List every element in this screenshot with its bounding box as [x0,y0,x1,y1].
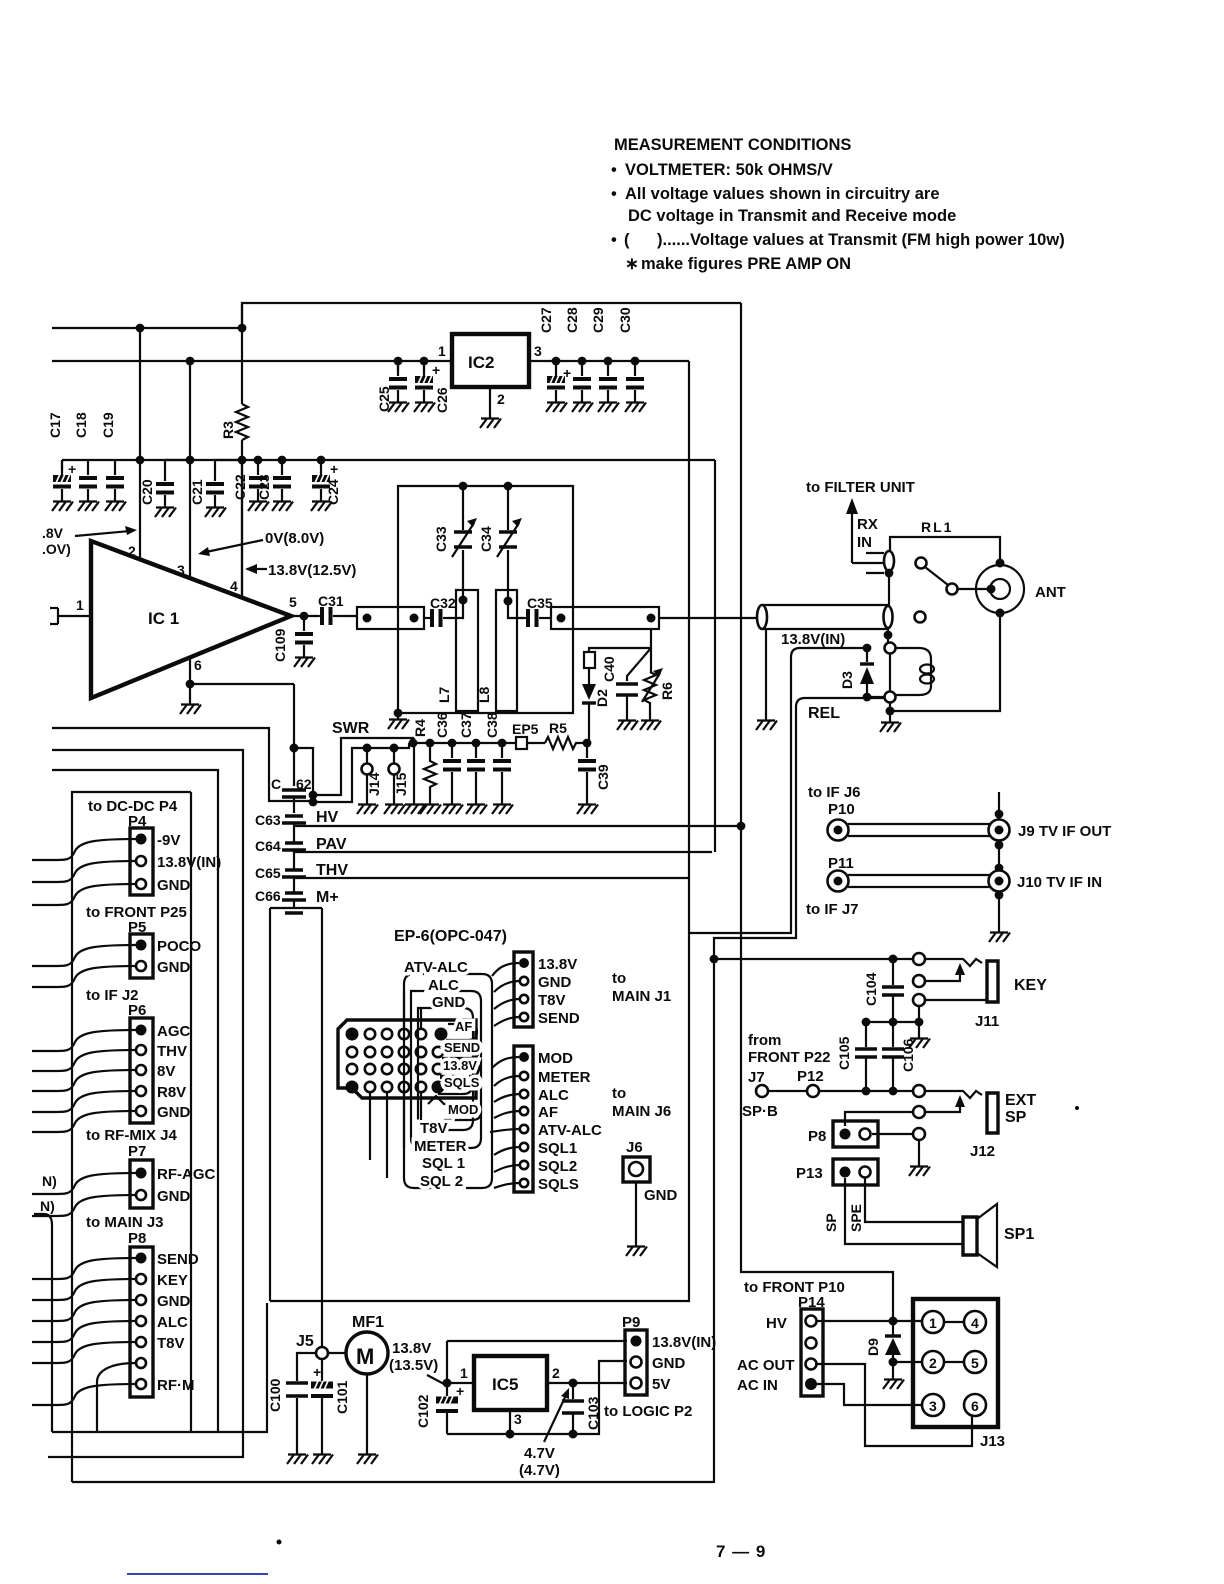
svg-text:to FRONT P10: to FRONT P10 [744,1279,845,1296]
svg-text:RX: RX [857,516,878,533]
svg-text:8V: 8V [157,1063,175,1080]
svg-text:M+: M+ [316,889,339,906]
svg-text:+: + [432,362,440,378]
svg-text:D9: D9 [865,1338,881,1356]
capacitor C22 [249,460,267,497]
connector to MAIN J1 [514,952,533,1027]
speaker SP1 [963,1217,977,1255]
wire SP to speaker [845,1178,963,1244]
resistor R3 [241,303,243,599]
svg-text:SQL 1: SQL 1 [422,1155,465,1172]
svg-text:SQLS: SQLS [444,1075,480,1090]
svg-text:ALC: ALC [157,1314,188,1331]
svg-text:C104: C104 [863,972,879,1006]
svg-text:C23: C23 [256,474,272,500]
svg-text:C22: C22 [232,474,248,500]
svg-text:to RF-MIX J4: to RF-MIX J4 [86,1127,177,1144]
wire left long 3 [52,770,218,1432]
svg-text:J13: J13 [980,1433,1005,1450]
IC5 ground rail [447,1361,627,1434]
svg-text:C100: C100 [267,1378,283,1412]
svg-text:C30: C30 [617,307,633,333]
svg-text:R4: R4 [412,719,428,737]
wire PAV line [294,851,712,853]
svg-text:3: 3 [929,1398,937,1414]
svg-text:C18: C18 [73,412,89,438]
J13 contact 1 [922,1311,944,1333]
capacitor C18 [79,460,97,497]
stray mark [1075,1106,1079,1110]
J13 contact 6 [964,1394,986,1416]
relay RL1 top contact [884,551,894,571]
wire pin2 vertical [139,328,141,560]
wire arrow base to contact [852,562,883,564]
capacitor C24 [312,460,330,497]
wire left vertical to line A [34,1214,52,1432]
capacitor C17 [53,460,71,497]
node rail460 x242 [238,456,247,465]
capacitor C21 [215,460,242,466]
jumper EP (small box above D2) [584,652,595,668]
diode D2 [582,684,596,700]
capacitor C40 [627,648,651,681]
J13 contact 4 [964,1311,986,1333]
svg-text:T8V: T8V [157,1335,185,1352]
svg-text:(13.5V): (13.5V) [389,1357,438,1374]
pin 4 vertical wire [241,460,243,598]
capacitor C25 [394,357,403,366]
svg-text:L8: L8 [476,686,492,703]
svg-text:C20: C20 [139,479,155,505]
svg-text:SQL1: SQL1 [538,1140,577,1157]
svg-text:to: to [612,970,626,987]
svg-text:GND: GND [538,974,572,991]
routing loop GND [418,1008,473,1130]
trimmer capacitor C33 [462,486,464,600]
svg-text:2: 2 [128,543,136,559]
svg-text:3: 3 [177,562,185,578]
svg-text:13.8V(12.5V): 13.8V(12.5V) [268,562,356,579]
svg-text:R5: R5 [549,720,567,736]
antenna jack ANT [976,565,1024,613]
svg-text:RF·M: RF·M [157,1377,195,1394]
bypass rail y460 [62,459,715,461]
wire bottom border C [72,1481,714,1483]
wire AC IN [817,1384,927,1405]
svg-text:•: • [611,231,617,249]
wire relay pole down [887,628,889,642]
capacitor C103 [572,1383,574,1399]
relay coil terminal bottom [885,692,896,703]
svg-text:HV: HV [316,809,339,826]
microstrip line 2 [551,607,659,629]
node rail1 end [238,324,247,333]
coaxial line to relay [762,605,888,629]
op-amp IC2 regulator box [452,334,529,387]
svg-text:1: 1 [435,1083,440,1093]
capacitor C102 [436,1397,458,1404]
svg-text:+: + [563,365,571,381]
capacitor C39 [578,743,596,780]
node line below C104 [866,1021,919,1023]
wire J10 ground [998,892,1000,928]
svg-text:METER: METER [538,1069,591,1086]
microstrip line 1 [357,607,424,629]
perfboard marked pads [346,1028,358,1040]
wire pin6 to C62 [293,684,295,786]
svg-text:R6: R6 [659,682,675,700]
svg-text:SQL2: SQL2 [538,1158,577,1175]
svg-text:J15: J15 [393,772,409,796]
svg-text:1: 1 [438,343,446,359]
svg-text:THV: THV [316,862,348,879]
svg-text:J12: J12 [970,1143,995,1160]
svg-text:KEY: KEY [157,1272,188,1289]
ground at resonator box corner [388,715,409,729]
jack J15 [393,748,395,764]
svg-text:C21: C21 [189,479,205,505]
node L8 top [504,597,513,606]
svg-text:ALC: ALC [428,977,459,994]
svg-text:GND: GND [157,877,191,894]
perfboard riser wires [404,991,421,1029]
svg-text:+: + [456,1383,464,1399]
capacitor C36 [448,739,457,748]
svg-text:GND: GND [644,1187,678,1204]
svg-text:AF: AF [455,1019,472,1034]
svg-text:T8V: T8V [420,1120,448,1137]
capacitor C101 [321,1359,323,1381]
wire P8 spare pin drop [97,1363,136,1432]
wire PAV vertical [714,460,716,852]
svg-text:C64: C64 [255,838,281,854]
node on rail1 at pin2 line [136,324,145,333]
svg-text:MAIN J1: MAIN J1 [612,988,671,1005]
relay coil terminal top [885,643,896,654]
svg-text:C19: C19 [100,412,116,438]
svg-text:GND: GND [157,959,191,976]
wire AC OUT [817,1364,972,1446]
svg-text:C66: C66 [255,888,281,904]
svg-text:C65: C65 [255,865,281,881]
svg-text:2: 2 [497,391,505,407]
svg-text:5: 5 [289,594,297,610]
capacitor C31 [314,607,338,625]
wire D9 node to J13 pin2 [893,1361,927,1363]
svg-text:SPE: SPE [848,1204,864,1232]
svg-text:C63: C63 [255,812,281,828]
wire bottom left A [52,1303,267,1432]
svg-text:J14: J14 [366,772,382,796]
svg-text:C40: C40 [601,656,617,682]
capacitor C106 [892,1022,894,1047]
wire SPE to speaker [865,1178,963,1222]
svg-text:13.8V(IN): 13.8V(IN) [652,1334,716,1351]
svg-text:ALC: ALC [538,1087,569,1104]
svg-text:HV: HV [766,1315,787,1332]
svg-text:C26: C26 [434,387,450,413]
svg-text:-9V: -9V [157,832,180,849]
svg-text:2: 2 [349,1030,354,1040]
wire relay common to ground [889,703,891,718]
ground stub right of J15 [413,738,415,800]
capacitor C26 [420,357,429,366]
svg-text:GND: GND [432,994,466,1011]
svg-text:MAIN J6: MAIN J6 [612,1103,671,1120]
svg-text:THV: THV [157,1043,187,1060]
svg-text:ATV-ALC: ATV-ALC [538,1122,602,1139]
svg-text:MEASUREMENT CONDITIONS: MEASUREMENT CONDITIONS [614,136,851,154]
svg-text:IC 1: IC 1 [148,609,179,628]
capacitor C37 [472,739,481,748]
wire tap from microstrip2 to detector [589,629,651,652]
wire left long 1 [52,728,313,801]
svg-text:C34: C34 [478,526,494,552]
svg-text:N): N) [42,1173,57,1189]
feedthrough capacitor C62 [282,790,306,797]
wires P8 pins [32,1258,136,1405]
stray dot bottom left [277,1540,282,1545]
svg-text:PAV: PAV [316,836,347,853]
svg-text:5V: 5V [652,1376,670,1393]
jack J11 sleeve contact [913,994,925,1006]
wire J9 to J10 [998,841,1000,870]
svg-text:METER: METER [414,1138,467,1155]
svg-text:to MAIN J3: to MAIN J3 [86,1214,164,1231]
svg-text:T8V: T8V [538,992,566,1009]
wire IC5 output pin2 [547,1382,627,1384]
wire THV vertical [688,361,690,933]
svg-text:C32: C32 [430,595,456,611]
svg-text:make figures PRE AMP ON: make figures PRE AMP ON [641,255,851,273]
capacitor C23 [273,460,291,497]
pin 2 wire and ground [489,387,491,414]
svg-text:C101: C101 [334,1380,350,1414]
jack J12 body [987,1093,998,1133]
svg-text:P11: P11 [828,855,854,872]
svg-text:EP-6(OPC-047): EP-6(OPC-047) [394,928,507,945]
wire KEY top [714,958,914,960]
svg-text:SQLS: SQLS [538,1176,579,1193]
wire C62 node to brackets [294,748,313,795]
wires J1 pins [492,963,520,1026]
relay coil REL [896,648,931,695]
svg-text:C38: C38 [484,712,500,738]
svg-text:AGC: AGC [157,1023,191,1040]
svg-text:to IF J6: to IF J6 [808,784,861,801]
svg-text:C102: C102 [415,1394,431,1428]
svg-text:13.8V: 13.8V [392,1340,431,1357]
relay RL1 lower contact [884,606,893,628]
pin 6 wire and ground [190,657,294,700]
node rail460 x190 [186,456,195,465]
J13 contact 5 [964,1351,986,1373]
wire microstrip2 to coax [659,617,757,619]
svg-text:J10 TV IF IN: J10 TV IF IN [1017,874,1102,891]
jack J11 tip contact [913,953,925,965]
svg-text:13.8V: 13.8V [443,1058,477,1073]
svg-text:1: 1 [929,1315,937,1331]
capacitor C105 [865,1022,867,1047]
jack J12 sleeve contact [913,1128,925,1140]
svg-text:.OV): .OV) [42,541,71,557]
relay RL1 moving contact [916,558,927,569]
wire coax shield ground [765,629,767,716]
svg-text:SP: SP [823,1213,839,1232]
svg-text:4: 4 [438,1030,443,1040]
svg-text:+: + [313,1364,321,1380]
svg-text:+: + [68,461,76,477]
node rail460 x140 [136,456,145,465]
svg-text:13.8V(IN): 13.8V(IN) [781,631,845,648]
svg-text:SEND: SEND [157,1251,199,1268]
big box top border [242,303,741,328]
svg-text:6: 6 [194,657,202,673]
wire J5 to C100 [297,1353,316,1381]
routing capsule SQLS [438,1078,472,1094]
capacitor C38 [498,739,507,748]
SWR detector line [413,742,545,744]
svg-text:4: 4 [971,1315,979,1331]
SWR sense bracket inner [313,743,409,802]
measurement conditions note [611,136,1065,273]
svg-text:0V(8.0V): 0V(8.0V) [265,530,324,547]
svg-text:L7: L7 [436,686,452,703]
trimmer capacitor C34 [507,486,509,601]
svg-text:C28: C28 [564,307,580,333]
svg-text:SEND: SEND [444,1040,480,1055]
node L7 top [459,596,468,605]
svg-text:R3: R3 [220,421,236,439]
svg-text:MOD: MOD [448,1102,478,1117]
pin 5 output node [291,615,317,617]
capacitor C19 [106,460,124,497]
svg-text:C17: C17 [47,412,63,438]
svg-text:P8: P8 [128,1230,146,1247]
svg-text:C24: C24 [325,479,341,505]
wire THV line [294,877,689,879]
op-amp IC1 (power module triangle) [91,541,291,698]
svg-text:M: M [356,1344,374,1369]
svg-text:EP5: EP5 [512,721,539,737]
arrow RX IN up [851,510,853,563]
feedthrough capacitor C64 PAV [282,843,306,850]
svg-text:AC OUT: AC OUT [737,1357,795,1374]
svg-text:All voltage values shown in ci: All voltage values shown in circuitry ar… [625,185,940,203]
svg-text:SWR: SWR [332,720,370,737]
svg-text:P10: P10 [828,801,855,818]
svg-text:MF1: MF1 [352,1314,384,1331]
svg-text:C33: C33 [433,526,449,552]
svg-text:R8V: R8V [157,1084,186,1101]
wire IC5 input [447,1341,474,1383]
resistor R5 [545,737,587,749]
wires J6 pins [490,1057,520,1188]
jack J11 ring contact [913,975,925,987]
svg-text:J7: J7 [748,1069,765,1086]
svg-text:EXT: EXT [1005,1092,1036,1109]
svg-text:to: to [612,1085,626,1102]
routing capsule AF [446,1024,477,1040]
capacitor C20 [165,460,190,466]
svg-text:(4.7V): (4.7V) [519,1462,560,1479]
wire ANT to common [890,613,1000,711]
svg-text:C105: C105 [836,1036,852,1070]
capacitor C109 [295,616,313,653]
svg-text:J6: J6 [626,1139,643,1156]
capacitor C35 [508,601,523,618]
leader arrow to pin2 [75,531,130,536]
svg-text:21: 21 [347,1084,356,1093]
resonator box outline [398,486,573,713]
capacitor C100 [286,1383,308,1396]
svg-text:C35: C35 [527,595,553,611]
svg-text:( )......Voltage values a: ( )......Voltage values at Transmit (FM … [624,231,1065,249]
svg-text:J11: J11 [975,1013,999,1030]
routing capsule MOD [428,1096,481,1120]
svg-text:4.7V: 4.7V [524,1445,555,1462]
jack J11 body [987,961,998,1002]
coax P11 [828,871,849,892]
svg-text:MOD: MOD [538,1050,573,1067]
jack J12 tip contact [913,1085,925,1097]
svg-text:.8V: .8V [42,525,64,541]
jack J12 ring contact [913,1106,925,1118]
svg-text:J9 TV IF OUT: J9 TV IF OUT [1018,823,1111,840]
svg-text:SP1: SP1 [1004,1226,1034,1243]
svg-text:3: 3 [534,343,542,359]
inductor L7 (strip resonator) [456,590,478,711]
wire 13.8V(IN) curve to REL net [689,648,867,933]
feedthrough capacitor C65 THV [282,870,306,877]
wire J6 ground [635,1182,637,1242]
perfboard drop wires [370,1092,421,1178]
svg-text:C106: C106 [900,1038,916,1072]
diode D3 [863,644,872,653]
wire M+ return [270,933,689,1301]
pin 1 connector stub [50,608,91,624]
svg-text:POCO: POCO [157,938,202,955]
SWR sense bracket outer [313,738,414,795]
wire left long 2 [48,750,243,1457]
wire M+ branch [270,908,322,1348]
wire pin3 vertical [189,361,191,579]
svg-text:D2: D2 [594,689,610,707]
svg-text:IC5: IC5 [492,1375,518,1394]
inductor L8 (strip resonator) [496,590,517,711]
svg-text:3: 3 [514,1411,522,1427]
svg-text:RF-AGC: RF-AGC [157,1166,215,1183]
capacitor C27 [552,357,561,366]
svg-text:C25: C25 [376,386,392,412]
svg-text:IC2: IC2 [468,353,494,372]
svg-text:SQL 2: SQL 2 [420,1173,463,1190]
wire RL1 pole vertical [888,571,890,607]
svg-text:KEY: KEY [1014,977,1047,994]
svg-text:GND: GND [157,1188,191,1205]
feedthrough capacitor C63 HV [282,816,306,823]
svg-text:GND: GND [157,1104,191,1121]
svg-text:C109: C109 [272,628,288,662]
ground under D9 [892,1362,894,1375]
svg-text:13.8V(IN): 13.8V(IN) [157,854,221,871]
svg-text:4: 4 [230,578,238,594]
J13 contact 3 [922,1394,944,1416]
svg-text:J5: J5 [296,1333,314,1350]
svg-text:P13: P13 [796,1165,823,1182]
svg-text:13.8V: 13.8V [538,956,577,973]
svg-text:1: 1 [460,1365,468,1381]
